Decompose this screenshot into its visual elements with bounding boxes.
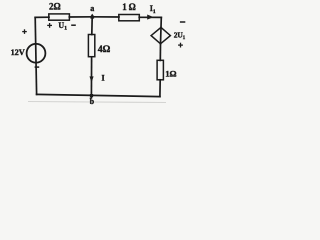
- wire top: node a to 1ohm resistor: [92, 16, 119, 18]
- svg-text:1Ω: 1Ω: [165, 68, 176, 78]
- wire middle: node a down to 4ohm resistor: [91, 17, 93, 35]
- label - of 12V source: [35, 66, 40, 68]
- node a junction dot: [90, 14, 94, 19]
- faint scan artifact line: [28, 101, 166, 104]
- svg-text:1 Ω: 1 Ω: [122, 2, 136, 12]
- wire left: bottom-left corner up through 12V source to top-left corner: [35, 17, 36, 94]
- label + of U1: [47, 23, 52, 28]
- voltage source V1 12V circle: [27, 44, 46, 63]
- resistor R3 4ohm box (middle): [88, 35, 94, 57]
- dependent source U diamond 2U1: [151, 27, 170, 43]
- svg-text:a: a: [90, 4, 94, 13]
- wire right: dependent source to vertical 1ohm resistor: [159, 44, 161, 61]
- arrowhead current I1 (top right): [147, 15, 153, 20]
- svg-text:U1: U1: [58, 21, 67, 32]
- arrowhead current I (middle branch): [90, 76, 94, 82]
- label + of dependent source: [178, 43, 183, 48]
- wire top-left: corner to 2ohm resistor: [35, 16, 49, 18]
- svg-text:b: b: [90, 97, 95, 106]
- svg-text:12V: 12V: [11, 48, 25, 57]
- wire through dependent source diamond: [160, 28, 163, 44]
- node b junction dot: [90, 94, 93, 97]
- wire right: corner down to dependent source: [160, 17, 162, 27]
- svg-text:4Ω: 4Ω: [98, 44, 111, 55]
- label - of dependent source: [180, 21, 185, 23]
- wire middle: 4ohm resistor down to node b: [90, 57, 92, 98]
- svg-text:I: I: [102, 74, 105, 83]
- resistor R4 1ohm box (right): [157, 60, 163, 80]
- wire right: 1ohm resistor to bottom-right corner: [159, 80, 161, 97]
- svg-text:I1: I1: [150, 4, 156, 15]
- wire bottom: bottom-right to bottom-left corner: [37, 94, 160, 96]
- resistor R2 1ohm box (top): [119, 15, 140, 21]
- wire top-right: 1ohm resistor to top-right corner: [139, 16, 161, 18]
- label + of 12V source: [22, 29, 27, 34]
- svg-text:2U1: 2U1: [174, 31, 186, 41]
- svg-text:2Ω: 2Ω: [49, 1, 61, 11]
- wire top-middle: 2ohm resistor to node a: [69, 16, 92, 18]
- resistor R1 2ohm box: [49, 14, 70, 20]
- label - of U1: [71, 24, 76, 26]
